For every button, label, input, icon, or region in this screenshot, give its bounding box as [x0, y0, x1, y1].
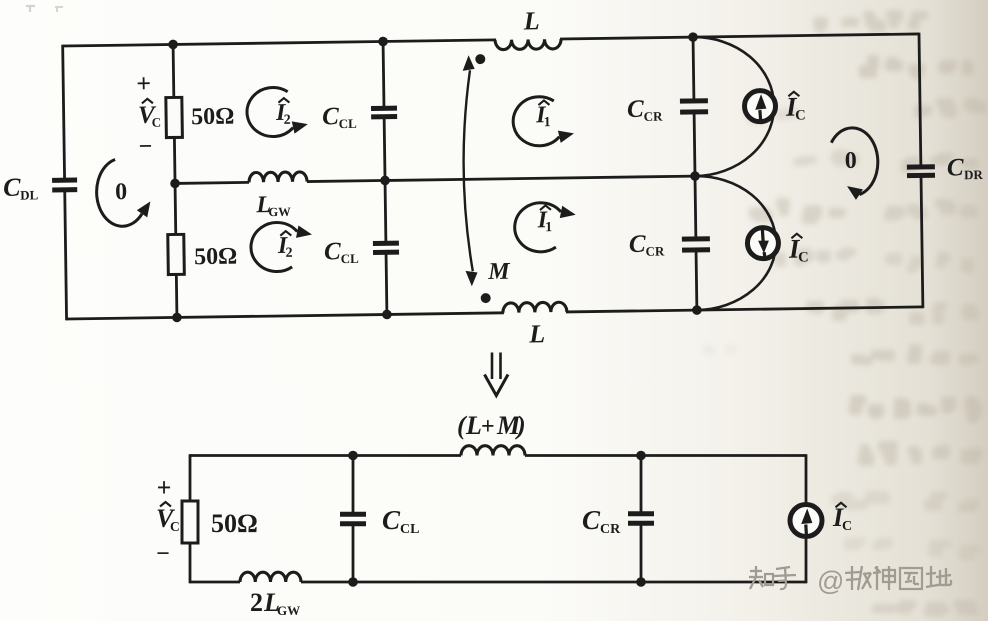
svg-text:C: C	[798, 250, 809, 266]
svg-text:@: @	[817, 566, 844, 596]
svg-text:C: C	[382, 505, 401, 535]
svg-text:C: C	[842, 519, 852, 534]
svg-text:2: 2	[250, 588, 263, 617]
svg-text:C: C	[324, 238, 341, 265]
svg-text:): )	[515, 411, 526, 440]
svg-text:C: C	[152, 115, 162, 130]
svg-text:M: M	[487, 259, 511, 285]
svg-text:GW: GW	[268, 205, 291, 219]
svg-text:0: 0	[115, 179, 127, 205]
svg-text:C: C	[795, 108, 806, 124]
svg-text:50Ω: 50Ω	[191, 104, 235, 131]
svg-text:C: C	[582, 505, 601, 535]
svg-text:1: 1	[544, 115, 551, 130]
svg-text:C: C	[947, 154, 964, 181]
svg-text:CL: CL	[400, 522, 419, 537]
svg-text:DR: DR	[964, 167, 984, 182]
svg-text:CR: CR	[645, 244, 665, 259]
svg-text:+: +	[136, 69, 151, 98]
svg-text:0: 0	[845, 148, 857, 174]
svg-text:CR: CR	[644, 109, 664, 124]
svg-text:−: −	[138, 134, 152, 160]
svg-text:GW: GW	[277, 603, 300, 618]
svg-text:+: +	[157, 473, 172, 502]
svg-text:CL: CL	[339, 116, 358, 131]
svg-text:C: C	[3, 173, 21, 202]
svg-text:C: C	[629, 231, 646, 258]
svg-text:50Ω: 50Ω	[211, 509, 258, 538]
svg-text:CL: CL	[341, 251, 360, 266]
svg-text:C: C	[627, 96, 644, 123]
svg-text:C: C	[322, 103, 339, 130]
svg-text:2: 2	[285, 246, 292, 261]
svg-text:−: −	[156, 541, 170, 567]
svg-text:+: +	[481, 414, 495, 440]
svg-text:CR: CR	[600, 522, 621, 537]
svg-text:L: L	[528, 319, 545, 348]
svg-text:50Ω: 50Ω	[194, 244, 238, 271]
svg-text:L: L	[465, 411, 482, 440]
svg-text:DL: DL	[20, 187, 39, 202]
svg-text:L: L	[523, 6, 540, 35]
svg-text:C: C	[170, 519, 180, 534]
svg-text:2: 2	[284, 113, 291, 128]
svg-text:1: 1	[545, 220, 552, 235]
